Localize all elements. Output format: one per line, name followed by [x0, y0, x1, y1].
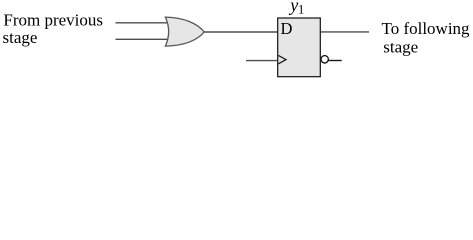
wire: Q output — [321, 31, 370, 33]
wire: clock input — [246, 60, 278, 62]
wire: OR output to D input — [204, 31, 278, 33]
svg-text:From previous: From previous — [3, 11, 103, 30]
OR gate — [165, 17, 204, 46]
node: To following stage (output label) — [382, 19, 471, 57]
wire: Q' stub — [329, 60, 342, 62]
node: From previous stage (input label) — [3, 11, 104, 48]
D flip-flop U1 body — [278, 18, 321, 77]
svg-text:y: y — [288, 0, 298, 15]
svg-text:1: 1 — [298, 2, 304, 16]
svg-text:D: D — [281, 19, 293, 38]
wire: OR gate input 1 — [116, 22, 172, 24]
wire: OR gate input 2 — [116, 38, 170, 40]
inversion bubble on Q' output — [321, 56, 328, 63]
svg-text:stage: stage — [3, 28, 38, 47]
label y1 (flip-flop name) — [288, 0, 304, 16]
svg-text:To following: To following — [382, 19, 471, 38]
svg-text:stage: stage — [383, 38, 418, 57]
clock chevron (dynamic input symbol) — [278, 55, 286, 63]
